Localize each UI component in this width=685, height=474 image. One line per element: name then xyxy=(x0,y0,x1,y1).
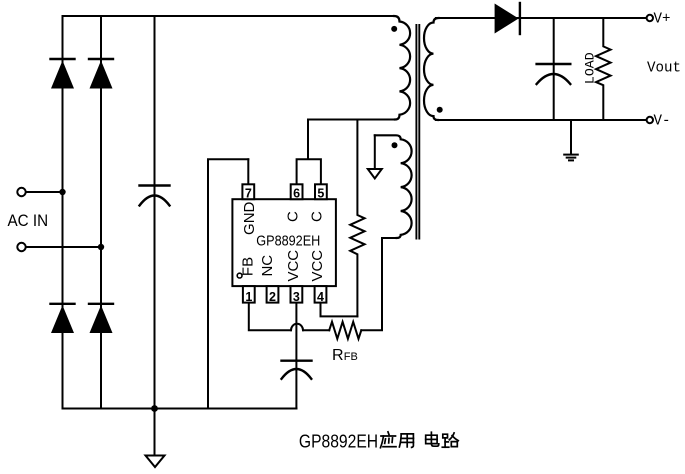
transformer T1 aux winding xyxy=(375,135,412,238)
caption CJK: 用 xyxy=(399,434,413,448)
resistor R1 xyxy=(350,120,364,317)
svg-text:2: 2 xyxy=(269,290,276,304)
svg-text:GND: GND xyxy=(241,201,258,235)
pin 4 xyxy=(315,286,327,304)
svg-text:6: 6 xyxy=(293,186,300,200)
svg-text:C: C xyxy=(309,211,326,222)
diode D3 xyxy=(51,304,75,333)
svg-text:GP8892EH: GP8892EH xyxy=(256,232,320,249)
terminal V+ xyxy=(647,15,653,21)
caption CJK: 电 xyxy=(426,432,439,446)
pin 3 xyxy=(291,286,303,304)
wire: bridge left column xyxy=(62,16,64,409)
capacitor C3 output xyxy=(537,18,571,120)
svg-text:V+: V+ xyxy=(654,11,671,28)
svg-text:AC IN: AC IN xyxy=(8,212,49,230)
pin 1 xyxy=(243,286,255,304)
wire: pins 6/5 to primary xyxy=(297,120,321,185)
svg-text:NC: NC xyxy=(259,255,276,277)
wire: primary bottom xyxy=(308,119,396,121)
capacitor C2 feedback xyxy=(282,303,312,409)
svg-text:FB: FB xyxy=(239,257,256,276)
pin 6 xyxy=(291,184,303,200)
node: secondary phase dot xyxy=(437,107,443,113)
wire: RFB to aux winding xyxy=(361,238,397,330)
pin 7 xyxy=(242,184,254,200)
svg-text:4: 4 xyxy=(317,290,324,304)
caption CJK: 应 xyxy=(381,432,397,448)
transformer core xyxy=(416,25,419,239)
diode D2 xyxy=(89,59,113,89)
pin 2 xyxy=(267,286,279,304)
diode D5 output xyxy=(495,3,520,34)
svg-text:FB: FB xyxy=(344,351,358,363)
wire: top DC bus xyxy=(63,15,395,17)
diode D1 xyxy=(51,59,75,89)
svg-text:VCC: VCC xyxy=(285,250,302,282)
wire: bridge right column xyxy=(100,16,102,409)
resistor R2 LOAD xyxy=(596,18,611,120)
wire: V- rail xyxy=(436,119,647,121)
capacitor C1 bulk xyxy=(140,16,170,409)
node: junction AC bottom xyxy=(98,244,104,250)
svg-text:VCC: VCC xyxy=(309,250,326,282)
wire: AC input top xyxy=(26,191,63,193)
resistor RFB xyxy=(329,322,361,339)
diode D4 xyxy=(89,304,113,333)
svg-text:C: C xyxy=(285,211,302,222)
op-amp U1 GP8892EH body xyxy=(232,199,336,286)
svg-text:V-: V- xyxy=(654,112,671,129)
wire: pin 4 to R1 xyxy=(321,303,358,317)
svg-text:LOAD: LOAD xyxy=(583,52,598,84)
svg-text:5: 5 xyxy=(317,186,324,200)
wire: pin 7 stub xyxy=(247,159,249,184)
node: primary phase dot xyxy=(391,26,397,32)
label RFB xyxy=(332,347,358,364)
ground: main ground xyxy=(146,409,165,468)
svg-text:7: 7 xyxy=(245,186,252,200)
wire: hop to RFB xyxy=(303,329,329,331)
wire: hop over pin3 line xyxy=(291,324,303,331)
wire: pin 1 to RFB xyxy=(249,303,291,331)
wire: bottom ground bus xyxy=(63,408,297,410)
terminal: AC bottom xyxy=(17,243,25,251)
node: aux phase dot xyxy=(392,142,398,148)
pin 5 xyxy=(315,184,327,200)
svg-text:R: R xyxy=(332,347,344,364)
node: junction bottom bus xyxy=(151,405,158,412)
ground: aux return arrow xyxy=(368,135,382,178)
svg-text:GP8892EH: GP8892EH xyxy=(299,430,378,451)
node: junction AC top xyxy=(59,189,65,195)
wire: V+ rail xyxy=(436,17,647,19)
transformer T1 secondary winding xyxy=(424,18,439,120)
svg-text:1: 1 xyxy=(245,290,252,304)
wire: GND return from pin 7 xyxy=(208,159,248,408)
caption CJK: 路 xyxy=(442,433,458,447)
node: pin 1 indicator xyxy=(237,273,242,278)
svg-text:Vout: Vout xyxy=(647,60,681,77)
ground: earth ground xyxy=(564,120,578,160)
wire: AC input bottom xyxy=(26,246,101,248)
transformer T1 primary winding xyxy=(394,16,410,120)
svg-text:3: 3 xyxy=(293,290,300,304)
terminal V- xyxy=(647,117,653,123)
terminal: AC top xyxy=(17,188,25,196)
